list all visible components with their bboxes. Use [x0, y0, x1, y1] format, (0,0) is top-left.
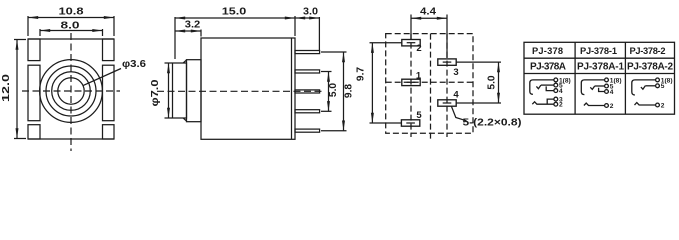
svg-text:10.8: 10.8 — [59, 7, 84, 18]
pad 5 — [401, 120, 419, 126]
sym3 wire 2 with tip spring — [635, 103, 656, 105]
svg-text:5: 5 — [416, 110, 422, 121]
concentric circles of jack opening — [40, 60, 103, 123]
front view top edge — [28, 38, 114, 40]
dim 3.0 line — [295, 17, 319, 19]
pcb dashed vertical col B — [446, 34, 448, 137]
sym3 terminal 1(8) — [656, 78, 660, 82]
svg-text:φ7.0: φ7.0 — [150, 79, 161, 106]
pad 3 center dash — [443, 61, 452, 63]
sym2 terminal 5 — [605, 84, 609, 88]
svg-text:1: 1 — [416, 70, 422, 81]
leader line phi 3.6 — [83, 69, 121, 86]
pcb dashed vertical center — [430, 34, 432, 141]
dim 5.0 side line — [328, 72, 330, 112]
sym2 terminal 1(8) — [605, 78, 609, 82]
barrel chamfer top — [183, 60, 186, 63]
pcb dashed row pad1 (centerline) — [386, 81, 473, 83]
dim 9.8 line — [343, 52, 345, 131]
svg-text:12.0: 12.0 — [1, 74, 12, 102]
svg-text:φ3.6: φ3.6 — [122, 59, 146, 70]
dim 8.0 extension lines — [39, 29, 41, 36]
sym3 switch arm 5 — [641, 86, 645, 89]
pcb dashed vertical col A — [410, 34, 412, 137]
dim 10.8 extension lines — [27, 16, 29, 36]
dim 9.7 line — [371, 43, 373, 123]
sym2 wire 4 with anvil — [599, 88, 605, 92]
front view bottom edge — [28, 138, 114, 140]
pin 3 (center) — [295, 90, 320, 93]
dim 15.0 extension right / body edge extended — [294, 16, 296, 36]
dim 5.0 pcb extension lines — [457, 61, 502, 63]
pcb dashed outline — [386, 34, 473, 134]
sym3 terminal 2 — [656, 103, 660, 107]
pad 4 center dash — [443, 102, 452, 104]
sym1 wire 4 with anvil — [546, 86, 554, 90]
pad 5 center dash — [406, 122, 415, 124]
dim phi7.0 line — [168, 63, 170, 118]
sym2 wire 2 with tip spring — [584, 103, 605, 105]
svg-text:9.7: 9.7 — [356, 67, 367, 81]
barrel chamfer bottom — [183, 118, 186, 121]
pin 5 (bottom) — [295, 129, 320, 132]
svg-text:3.0: 3.0 — [303, 7, 318, 18]
sym1 terminal 5 — [554, 83, 558, 87]
barrel step rect — [187, 60, 202, 122]
sym1 wire 2 with tip spring — [532, 102, 554, 104]
sym1 terminal 1(8) — [554, 78, 558, 82]
svg-text:3: 3 — [453, 67, 458, 78]
dim 15.0 line — [175, 17, 295, 19]
pad 2 — [402, 40, 420, 46]
sym1 terminal 3 — [554, 97, 558, 101]
pad 1 — [402, 79, 420, 85]
svg-text:4.4: 4.4 — [420, 6, 436, 17]
sym1 wire 5 — [541, 84, 554, 86]
svg-text:5-(2.2×0.8): 5-(2.2×0.8) — [463, 117, 522, 128]
pad 4 — [438, 100, 456, 106]
svg-text:9.8: 9.8 — [344, 84, 355, 98]
svg-text:3.2: 3.2 — [185, 19, 201, 30]
sym3 terminal 5 — [656, 84, 660, 88]
dim 4.4 extension lines — [410, 15, 412, 40]
svg-text:4: 4 — [610, 89, 614, 96]
dim 12.0 extension lines — [14, 39, 26, 41]
right column middle block — [103, 65, 115, 121]
sym1 switch arm 5 — [536, 85, 541, 89]
dim 12.0 line — [16, 40, 18, 139]
sym2 wire 5 — [595, 85, 605, 87]
right column top tab — [103, 39, 115, 61]
sym3 sleeve lever and wire 1(8) — [632, 80, 656, 95]
pad 2 center dash — [407, 42, 416, 44]
dim 4.4 line — [411, 17, 447, 19]
side view centerline — [157, 90, 325, 92]
pad 1 center dash — [407, 81, 416, 83]
svg-text:2: 2 — [559, 102, 563, 109]
svg-text:PJ-378A-1: PJ-378A-1 — [577, 62, 624, 73]
sym1 terminal 2 — [554, 102, 558, 106]
side view body — [201, 38, 295, 139]
pin 4 — [295, 110, 320, 113]
left column bottom tab — [28, 125, 40, 139]
dim 9.7 extension lines — [370, 42, 402, 44]
right column bottom tab — [103, 125, 115, 139]
barrel tip rect — [173, 63, 187, 118]
leader 5-(2.2x0.8) — [452, 107, 467, 121]
symbol terminal labels — [559, 77, 673, 110]
side view inner vertical near right — [291, 38, 293, 139]
sym1 sleeve lever and wire 1(8) — [530, 80, 554, 94]
table header texts — [530, 46, 673, 73]
symbol PJ-378 cell — [530, 78, 558, 106]
dim phi7.0 extension lines — [165, 62, 173, 64]
svg-text:PJ-378A: PJ-378A — [530, 62, 566, 73]
sym1 terminal 4 — [554, 89, 558, 93]
table column separators — [574, 42, 576, 114]
svg-text:5: 5 — [661, 83, 665, 90]
front view horizontal centerline — [22, 90, 120, 92]
table outline — [524, 42, 675, 114]
dim 5.0 side extension lines — [321, 71, 332, 73]
svg-text:4: 4 — [453, 90, 459, 101]
svg-text:5.0: 5.0 — [328, 83, 339, 97]
sym2 switch arm 5 — [590, 86, 594, 89]
svg-text:5.0: 5.0 — [487, 75, 498, 89]
dim 8.0 line — [40, 30, 103, 32]
table row separators — [524, 57, 675, 59]
dim 5.0 pcb line — [498, 62, 500, 103]
svg-text:2: 2 — [610, 103, 614, 110]
dim 10.8 line — [28, 17, 114, 19]
dim 3.2 extension right — [200, 30, 202, 37]
svg-text:15.0: 15.0 — [222, 7, 247, 18]
dim 3.0 extension right — [318, 17, 320, 50]
svg-text:4: 4 — [559, 88, 563, 95]
svg-text:PJ-378A-2: PJ-378A-2 — [627, 62, 673, 73]
sym2 terminal 2 — [605, 104, 609, 108]
svg-text:PJ-378-1: PJ-378-1 — [580, 46, 617, 56]
left column top tab — [28, 39, 40, 61]
symbol PJ-378-2 cell — [632, 78, 660, 107]
sym1 wire 3 with contact drop — [547, 99, 554, 104]
svg-text:2: 2 — [416, 43, 421, 54]
svg-text:PJ-378: PJ-378 — [532, 46, 563, 56]
dim 9.8 extension lines — [321, 51, 347, 53]
svg-text:2: 2 — [661, 102, 665, 109]
front view vertical centerline — [70, 33, 72, 151]
pad 3 — [438, 59, 456, 65]
pin 1 (top) — [295, 51, 320, 54]
sym3 wire 5 — [645, 85, 655, 87]
dim 15.0 extension left — [174, 17, 176, 59]
left column middle block — [28, 65, 40, 121]
dim 3.2 line — [175, 30, 201, 32]
sym2 sleeve lever and wire 1(8) — [581, 80, 604, 95]
svg-text:8.0: 8.0 — [61, 20, 80, 31]
sym2 terminal 4 — [605, 90, 609, 94]
pin 2 — [295, 70, 320, 73]
svg-text:PJ-378-2: PJ-378-2 — [630, 46, 666, 56]
symbol PJ-378-1 cell — [581, 78, 608, 107]
